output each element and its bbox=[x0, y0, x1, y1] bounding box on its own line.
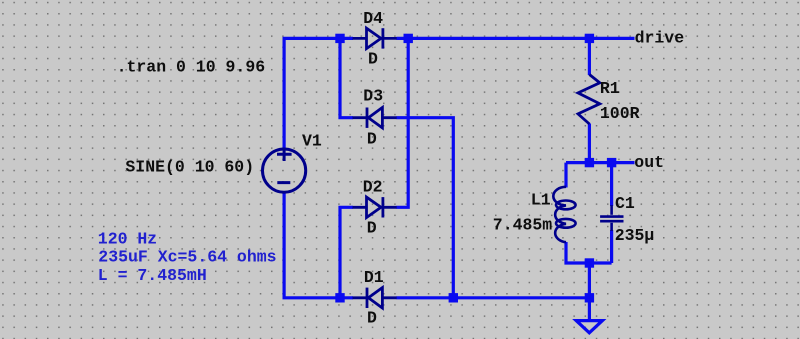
svg-text:R1: R1 bbox=[600, 79, 620, 98]
svg-text:235uF Xc=5.64 ohms: 235uF Xc=5.64 ohms bbox=[98, 248, 276, 267]
wire from V1 minus terminal down and right along bottom bus to D1 cathode bbox=[284, 192, 353, 298]
svg-text:235µ: 235µ bbox=[615, 226, 655, 245]
svg-text:SINE(0 10 60): SINE(0 10 60) bbox=[125, 158, 254, 177]
svg-text:out: out bbox=[634, 153, 664, 172]
voltage source V1 bbox=[263, 148, 306, 193]
wire from out node down to C1 top plate bbox=[610, 163, 613, 206]
wire from tank bottom down to bottom bus ground node bbox=[588, 263, 591, 298]
wire from C1 bottom plate down to tank bottom bbox=[610, 230, 613, 263]
wire from V1 plus terminal up and right along top bus to D4 anode bbox=[284, 38, 353, 148]
svg-text:D1: D1 bbox=[364, 268, 384, 287]
svg-text:drive: drive bbox=[635, 29, 685, 48]
diode D3 bbox=[353, 108, 397, 128]
resistor R1 bbox=[578, 75, 600, 125]
capacitor C1 bbox=[600, 205, 623, 231]
svg-text:100R: 100R bbox=[600, 104, 640, 123]
svg-text:D2: D2 bbox=[363, 177, 383, 196]
wire bottom bus from D1 anode to ground node bbox=[396, 296, 589, 299]
junction at D4 cathode / D2 branch on top bus bbox=[404, 34, 413, 43]
svg-text:120 Hz: 120 Hz bbox=[98, 229, 157, 248]
svg-text:C1: C1 bbox=[615, 194, 635, 213]
wire out row from L1 branch to out label bbox=[566, 161, 635, 164]
svg-text:L = 7.485mH: L = 7.485mH bbox=[98, 266, 207, 285]
svg-text:D4: D4 bbox=[363, 9, 383, 28]
wire from drive node down to R1 top bbox=[588, 38, 591, 75]
svg-text:D3: D3 bbox=[363, 87, 383, 106]
svg-text:.tran 0 10 9.96: .tran 0 10 9.96 bbox=[117, 58, 266, 77]
wire from D3 anode right and down to bottom bus bbox=[396, 118, 453, 298]
svg-text:D: D bbox=[367, 219, 377, 238]
svg-text:D: D bbox=[368, 49, 378, 68]
diode D2 bbox=[353, 197, 397, 217]
wire from top bus down to D3 cathode side bbox=[340, 38, 353, 117]
junction at D4 anode / D3 branch on top bus bbox=[335, 34, 344, 43]
junction at ground node on bottom bus bbox=[585, 293, 594, 302]
svg-text:7.485m: 7.485m bbox=[493, 215, 553, 234]
junction at R1 bottom on out row bbox=[585, 158, 594, 167]
wire top bus from D4 cathode to drive label bbox=[396, 37, 634, 40]
diode D1 bbox=[353, 288, 397, 308]
inductor L1 bbox=[553, 187, 575, 242]
svg-text:L1: L1 bbox=[531, 190, 551, 209]
svg-text:D: D bbox=[367, 129, 377, 148]
junction at D2 branch on bottom bus bbox=[335, 293, 344, 302]
wire from out row down to L1 top bbox=[564, 163, 567, 188]
wire from top bus down to D2 cathode bbox=[396, 38, 408, 207]
svg-text:V1: V1 bbox=[302, 131, 322, 150]
junction at drive node on top bus bbox=[585, 34, 594, 43]
svg-text:D: D bbox=[367, 308, 377, 327]
diode D4 bbox=[353, 28, 397, 48]
ground bbox=[576, 321, 602, 333]
wire from R1 bottom down to out node bbox=[588, 124, 591, 163]
junction at D3 branch on bottom bus bbox=[449, 293, 458, 302]
junction at tank bottom bbox=[585, 258, 594, 267]
wire stub from bottom bus to ground symbol bbox=[588, 298, 591, 320]
junction at C1 top on out row bbox=[607, 158, 616, 167]
wire from D2 anode left and down to bottom bus bbox=[340, 207, 353, 297]
wire from L1 bottom down and right along tank bottom bbox=[566, 242, 612, 263]
